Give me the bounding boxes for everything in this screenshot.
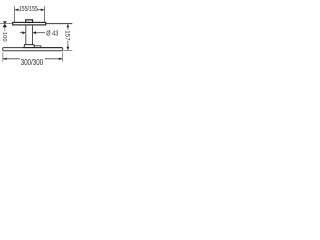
left vertical dim line segment xyxy=(4,27,6,31)
background xyxy=(0,0,75,75)
pipe left wall xyxy=(25,25,27,45)
arrowhead pointing right at pipe left wall xyxy=(22,31,25,34)
dimension line 300/300 left segment xyxy=(3,58,20,60)
pipe diameter dim tail left xyxy=(20,32,23,34)
arrowhead right of 155/155 xyxy=(41,9,45,11)
dimension line 155/155 right stub xyxy=(37,9,44,11)
svg-text:300/300: 300/300 xyxy=(21,58,44,67)
extension line right of 300/300 dim xyxy=(62,52,64,61)
left vertical dim: arrow below ceiling pointing up xyxy=(3,24,7,28)
extension line left of 300/300 dim xyxy=(2,52,4,61)
right vertical dim line lower segment xyxy=(67,41,69,49)
svg-text:155/155: 155/155 xyxy=(19,4,38,13)
pipe stub above escutcheon xyxy=(26,20,33,23)
head plate top edge darker xyxy=(23,47,62,49)
right vertical dim: up arrow at ceiling xyxy=(67,24,70,28)
arrowhead left of 300/300 xyxy=(3,58,7,60)
shower head plate (side view) xyxy=(3,48,63,51)
dimension line 155/155 left stub xyxy=(15,9,19,11)
right vertical dim line upper segment xyxy=(67,26,69,30)
right vertical dim: down arrow at head bottom xyxy=(67,47,70,51)
extension line for head bottom level xyxy=(64,50,73,52)
arrowhead left of 155/155 xyxy=(15,9,19,11)
extension line right of 155/155 dim xyxy=(44,6,46,22)
svg-text:Ø 43: Ø 43 xyxy=(46,29,58,38)
dimension line 300/300 right segment xyxy=(45,58,63,60)
ceiling line xyxy=(0,23,13,25)
escutcheon plate (side view) xyxy=(13,22,46,25)
svg-text:157: 157 xyxy=(64,30,71,41)
arrowhead pointing left at pipe right wall xyxy=(33,31,36,34)
left vertical dim: arrow above ceiling xyxy=(3,21,7,23)
svg-text:100: 100 xyxy=(1,32,7,42)
step detail right of collar xyxy=(35,46,41,48)
collar at pipe base xyxy=(24,45,35,48)
arrowhead right of 300/300 xyxy=(59,58,63,60)
pipe right wall xyxy=(32,25,34,45)
ceiling line right segment xyxy=(46,23,73,25)
pipe diameter dim tail right xyxy=(36,32,45,34)
extension line left of 155/155 dim xyxy=(14,6,16,22)
